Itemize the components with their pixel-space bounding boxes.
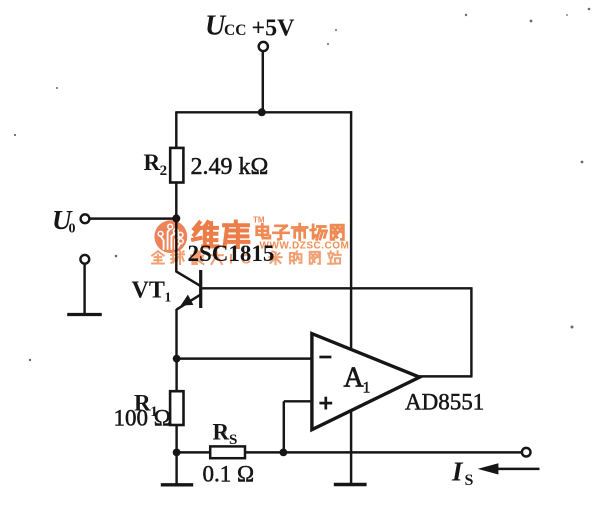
wire base to feedback corner	[201, 287, 472, 289]
wire left rail: top rail down to R2	[175, 112, 177, 149]
wire Ucc terminal to top rail	[262, 51, 264, 112]
ground bar floating terminal	[67, 313, 102, 316]
arrow Is direction	[494, 468, 540, 470]
junction dot plus-input tap	[280, 449, 288, 457]
wire plus tap vertical	[283, 401, 285, 452]
wire bottom sense line	[177, 451, 522, 453]
svg-text:I: I	[451, 457, 464, 487]
terminal Is (open circle)	[522, 448, 531, 457]
ground bar center below rail	[334, 483, 367, 486]
wire Uo terminal to node	[89, 217, 176, 219]
junction dot Uo node	[172, 214, 180, 222]
svg-text:1: 1	[165, 290, 172, 305]
svg-text:0.1 Ω: 0.1 Ω	[203, 462, 255, 487]
op-amp plus sign	[319, 402, 332, 405]
ground bar left	[161, 483, 193, 486]
wire minus input to op-amp	[177, 357, 313, 359]
svg-text:2: 2	[160, 163, 168, 179]
wire feedback vertical down to op-amp output	[470, 287, 472, 376]
svg-text:+5V: +5V	[252, 16, 296, 42]
wire right rail vertical (Ucc to bottom ground)	[350, 111, 352, 484]
watermark text dianzishichangwang	[257, 224, 270, 238]
wire R2 bottom to Uo node	[175, 183, 177, 220]
svg-text:R: R	[213, 420, 230, 445]
transistor VT1 emitter stroke	[177, 295, 201, 310]
svg-text:WWW.DZSC.COM: WWW.DZSC.COM	[260, 241, 350, 252]
wire floating terminal stub	[83, 264, 85, 315]
wire ground drop left	[175, 452, 177, 484]
svg-text:A: A	[344, 363, 365, 394]
op-amp A1 triangle	[312, 334, 420, 430]
wire top rail horizontal	[175, 111, 352, 113]
svg-text:1: 1	[363, 380, 371, 397]
watermark logo circuit pattern	[161, 229, 180, 249]
terminal Uo (open circle)	[81, 214, 90, 223]
op-amp minus sign	[319, 356, 331, 359]
svg-text:S: S	[465, 472, 474, 489]
transistor VT1 base bar	[199, 270, 202, 308]
svg-text:R: R	[144, 150, 161, 175]
wire op-amp output to feedback	[417, 375, 473, 377]
svg-text:S: S	[229, 432, 237, 448]
transistor VT1 collector stroke	[176, 271, 200, 286]
svg-text:100 Ω: 100 Ω	[114, 406, 171, 431]
watermark text Wei Ku (brand)	[193, 222, 217, 246]
junction dot emitter/R1/minus-input node	[173, 355, 181, 363]
wire R1 bottom to ground node	[175, 425, 177, 452]
watermark logo circle	[154, 220, 187, 253]
junction dot R1/Rs/ground node	[173, 449, 181, 457]
svg-text:0: 0	[69, 222, 76, 237]
wire Uo node down to collector	[175, 218, 177, 272]
resistor R2 body	[170, 148, 183, 183]
resistor Rs body	[210, 446, 245, 458]
scan speck group (noise)	[465, 14, 467, 16]
resistor R1 body	[170, 391, 183, 425]
svg-text:AD8551: AD8551	[405, 390, 484, 415]
svg-text:CC: CC	[224, 22, 246, 39]
wire plus input to op-amp	[284, 400, 313, 402]
junction dot Ucc/top rail	[258, 108, 266, 116]
watermark slogan row	[152, 251, 164, 263]
wire emitter down to minus node	[175, 309, 177, 359]
svg-text:VT: VT	[132, 278, 165, 304]
transistor VT1 emitter arrowhead	[181, 295, 194, 306]
terminal floating left (open circle)	[80, 255, 89, 264]
wire node down to R1	[175, 359, 177, 392]
svg-text:2.49 kΩ: 2.49 kΩ	[191, 154, 269, 180]
terminal Ucc (open circle)	[259, 42, 268, 51]
svg-text:IC: IC	[229, 251, 259, 267]
